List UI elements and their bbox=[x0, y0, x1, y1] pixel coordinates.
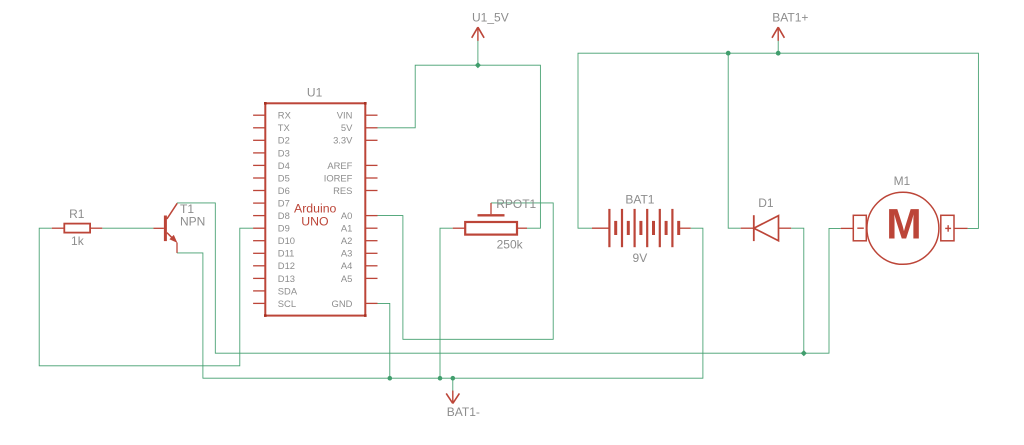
svg-text:D6: D6 bbox=[278, 185, 290, 196]
svg-text:A2: A2 bbox=[341, 235, 352, 246]
svg-text:D12: D12 bbox=[278, 260, 295, 271]
svg-text:AREF: AREF bbox=[327, 160, 352, 171]
potentiometer RPOT1 bbox=[453, 203, 527, 235]
wire U1 A0 to RPOT1 wiper bbox=[378, 203, 554, 339]
svg-text:R1: R1 bbox=[69, 207, 85, 221]
svg-text:D5: D5 bbox=[278, 172, 290, 183]
svg-text:D8: D8 bbox=[278, 210, 290, 221]
U1 right pin stubs bbox=[365, 115, 377, 303]
svg-text:VIN: VIN bbox=[337, 110, 353, 121]
wire U1 5V to RPOT1 right bbox=[378, 65, 541, 228]
wire U1_5V stub bbox=[477, 41, 479, 66]
svg-text:A4: A4 bbox=[341, 260, 352, 271]
power symbol BAT1+ arrow bbox=[772, 27, 784, 41]
node BAT1- junction bbox=[451, 376, 456, 381]
wire R1 left to U1 D9 (down-right-up) bbox=[39, 228, 253, 366]
motor M1 bbox=[841, 192, 968, 264]
svg-text:GND: GND bbox=[332, 298, 353, 309]
node BAT1+ junction bbox=[776, 51, 781, 56]
svg-text:A5: A5 bbox=[341, 273, 352, 284]
svg-text:D7: D7 bbox=[278, 198, 290, 209]
svg-text:A0: A0 bbox=[341, 210, 352, 221]
svg-text:RX: RX bbox=[278, 110, 292, 121]
svg-text:BAT1-: BAT1- bbox=[447, 405, 480, 419]
wire RPOT1 left down to bottom bus bbox=[440, 228, 453, 378]
svg-text:D11: D11 bbox=[278, 248, 295, 259]
svg-text:TX: TX bbox=[278, 122, 291, 133]
resistor R1 bbox=[52, 224, 103, 233]
node top-bus junction at D1 branch bbox=[726, 51, 731, 56]
node bottom-bus junction at RPOT1 left bbox=[438, 376, 443, 381]
svg-text:SDA: SDA bbox=[278, 285, 298, 296]
svg-text:U1: U1 bbox=[307, 86, 323, 100]
wire BAT1- stub bbox=[452, 378, 454, 391]
wire T1 collector to M1 left (mid bus) bbox=[177, 203, 841, 353]
wire top bus down to D1 left bbox=[728, 53, 741, 228]
svg-text:NPN: NPN bbox=[180, 214, 205, 228]
svg-text:3.3V: 3.3V bbox=[333, 135, 353, 146]
svg-text:250k: 250k bbox=[497, 237, 524, 251]
svg-text:RES: RES bbox=[333, 185, 352, 196]
power symbol U1_5V arrow bbox=[472, 27, 484, 41]
node bottom-bus junction at U1 GND bbox=[388, 376, 393, 381]
svg-text:D2: D2 bbox=[278, 135, 290, 146]
svg-text:BAT1: BAT1 bbox=[625, 193, 654, 207]
svg-text:M: M bbox=[886, 202, 921, 249]
svg-text:UNO: UNO bbox=[301, 214, 328, 228]
svg-text:RPOT1: RPOT1 bbox=[496, 197, 536, 211]
diode D1 bbox=[741, 215, 791, 241]
wire U1 GND down to bottom bus bbox=[378, 303, 390, 378]
svg-text:9V: 9V bbox=[633, 251, 648, 265]
svg-text:IOREF: IOREF bbox=[324, 172, 353, 183]
wire R1 right to T1 base bbox=[102, 227, 153, 229]
transistor T1 NPN bbox=[153, 203, 177, 253]
svg-text:BAT1+: BAT1+ bbox=[772, 11, 808, 25]
svg-text:5V: 5V bbox=[341, 122, 353, 133]
op-amp U1 Arduino UNO box bbox=[264, 102, 367, 317]
svg-text:M1: M1 bbox=[894, 174, 911, 188]
svg-text:D4: D4 bbox=[278, 160, 290, 171]
label Arduino UNO bbox=[294, 202, 337, 229]
wire D1 right down to mid bus bbox=[791, 228, 804, 353]
svg-text:1k: 1k bbox=[71, 234, 85, 248]
svg-text:D1: D1 bbox=[758, 196, 774, 210]
battery BAT1 bbox=[592, 209, 691, 247]
svg-text:D3: D3 bbox=[278, 147, 290, 158]
svg-text:D9: D9 bbox=[278, 223, 290, 234]
node U1_5V junction (diamond) bbox=[475, 62, 481, 68]
svg-text:A3: A3 bbox=[341, 248, 352, 259]
node mid-bus junction at D1 right (diamond) bbox=[801, 350, 807, 356]
wire T1 emitter to BAT1 right (bottom bus) bbox=[177, 228, 703, 378]
svg-text:SCL: SCL bbox=[278, 298, 296, 309]
svg-text:D10: D10 bbox=[278, 235, 295, 246]
power symbol BAT1- arrow bbox=[446, 391, 459, 404]
svg-text:A1: A1 bbox=[341, 223, 352, 234]
U1 left pin stubs bbox=[253, 115, 265, 303]
svg-text:U1_5V: U1_5V bbox=[472, 11, 509, 25]
wire BAT1+ top bus bbox=[578, 53, 978, 228]
svg-text:D13: D13 bbox=[278, 273, 295, 284]
wire BAT1+ stub bbox=[777, 41, 779, 54]
